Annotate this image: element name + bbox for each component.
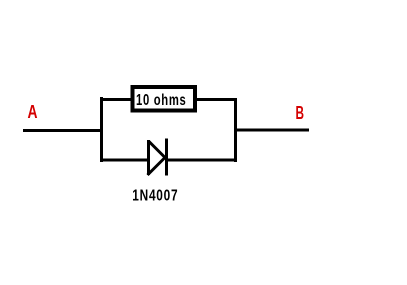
svg-text:10 ohms: 10 ohms <box>136 92 187 109</box>
svg-text:A: A <box>28 102 38 122</box>
svg-text:B: B <box>296 103 305 123</box>
svg-text:1N4007: 1N4007 <box>132 188 178 205</box>
